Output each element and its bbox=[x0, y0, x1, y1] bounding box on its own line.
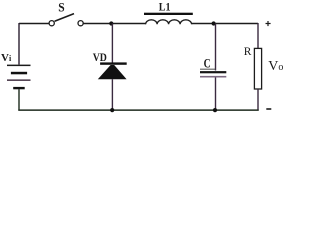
node: diode bottom junction bbox=[110, 108, 114, 112]
svg-text:Vi: Vi bbox=[1, 52, 12, 64]
svg-text:VD: VD bbox=[93, 52, 107, 64]
svg-text:R: R bbox=[244, 46, 252, 58]
diode VD bbox=[98, 62, 127, 79]
minus terminal bbox=[266, 108, 271, 110]
capacitor C bbox=[200, 69, 226, 78]
wire: switch to inductor bbox=[83, 23, 146, 25]
node: switch/diode junction bbox=[109, 21, 113, 25]
wire: diode bottom lead bbox=[111, 79, 113, 110]
wire: capacitor top lead bbox=[215, 24, 217, 71]
wire: resistor bottom lead bbox=[257, 89, 259, 111]
wire: left vertical (battery top lead) bbox=[18, 23, 20, 65]
node: capacitor junction top bbox=[212, 21, 216, 25]
battery Vi bbox=[7, 65, 31, 90]
plus terminal bbox=[266, 21, 271, 26]
svg-text:S: S bbox=[58, 1, 64, 15]
svg-text:Vo: Vo bbox=[268, 59, 283, 74]
inductor L1 bbox=[144, 13, 193, 25]
wire: bottom rail bbox=[18, 109, 258, 111]
wire: battery bottom lead bbox=[18, 89, 20, 110]
switch S bbox=[49, 14, 83, 26]
wire: top rail left segment (battery top to switch) bbox=[19, 23, 49, 25]
node: capacitor bottom junction bbox=[213, 108, 217, 112]
svg-text:L1: L1 bbox=[159, 0, 171, 14]
wire: capacitor bottom lead bbox=[215, 78, 217, 111]
wire: right vertical top (to resistor) bbox=[257, 23, 259, 49]
svg-text:C: C bbox=[204, 55, 211, 70]
wire: inductor to output corner bbox=[192, 23, 258, 25]
wire: diode top lead bbox=[111, 24, 113, 63]
resistor R bbox=[254, 48, 261, 89]
